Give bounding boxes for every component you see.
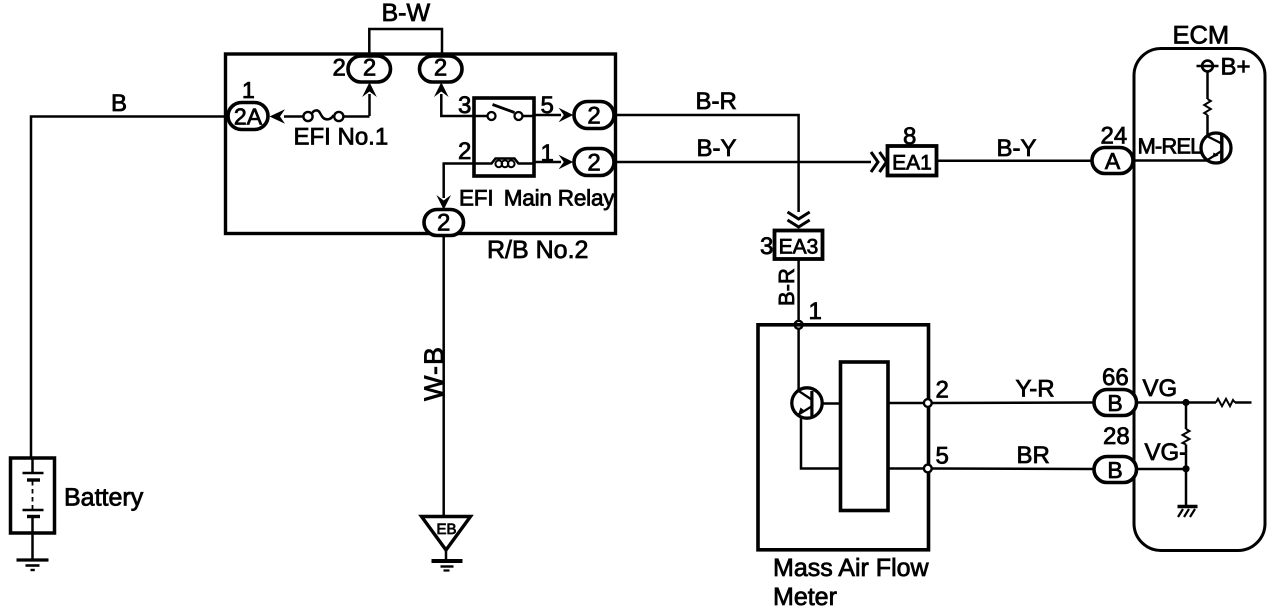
junction VG bbox=[1182, 399, 1189, 406]
wire VG- into ECM bbox=[1137, 468, 1187, 471]
wire relay pin 2 down bbox=[444, 164, 474, 199]
svg-text:2: 2 bbox=[333, 55, 346, 82]
svg-text:B-Y: B-Y bbox=[997, 135, 1037, 162]
ground under battery bbox=[17, 560, 49, 570]
wire W-B down to EB bbox=[442, 236, 445, 517]
resistor R horizontal VG bbox=[1216, 399, 1235, 406]
wire B-R from pin5 connector bbox=[614, 115, 799, 212]
wire EA3 down to MAF node bbox=[797, 259, 800, 321]
svg-text:2: 2 bbox=[936, 377, 949, 404]
chevron connector into EA3 bbox=[788, 212, 810, 227]
wire resistor to VG- node bbox=[1185, 445, 1188, 470]
MAF box Mass Air Flow Meter bbox=[758, 325, 929, 550]
node 1 on MAF top bbox=[795, 321, 803, 329]
wire B-W bridge bbox=[369, 29, 442, 55]
connector 2 right-bottom oval (pin 1) bbox=[574, 149, 614, 177]
wire resistor to transistor bbox=[1206, 115, 1209, 136]
svg-text:VG: VG bbox=[1143, 375, 1178, 402]
relay box EFI Main Relay bbox=[474, 98, 534, 176]
svg-text:BR: BR bbox=[1017, 442, 1050, 469]
transistor M-REL driver bbox=[1201, 133, 1231, 163]
wire battery to ground bbox=[31, 533, 34, 560]
svg-text:B-R: B-R bbox=[774, 268, 799, 306]
svg-text:B+: B+ bbox=[1221, 54, 1251, 81]
wire arrow to fuse bbox=[284, 115, 304, 118]
svg-text:EA3: EA3 bbox=[779, 236, 819, 259]
wire Y-R bbox=[932, 401, 1094, 404]
chevron connector into EA1 bbox=[871, 152, 887, 172]
svg-text:24: 24 bbox=[1101, 123, 1128, 150]
wire after resistor bbox=[1235, 401, 1252, 404]
battery BAT bbox=[11, 458, 55, 533]
wire relay pin 1 to connector bbox=[534, 161, 561, 164]
svg-text:2: 2 bbox=[458, 138, 471, 165]
svg-text:EFI Main Relay: EFI Main Relay bbox=[459, 186, 615, 211]
wire B+ down bbox=[1206, 72, 1209, 100]
wire B horizontal from battery riser to 2A bbox=[31, 117, 228, 459]
wire VG into ECM bbox=[1137, 401, 1217, 404]
B+ terminal symbol bbox=[1197, 61, 1219, 72]
svg-text:Meter: Meter bbox=[773, 583, 837, 611]
wire M-REL from A to transistor bbox=[1133, 159, 1207, 162]
node pin 2 bbox=[924, 399, 932, 407]
wire B-Y from EA1 to ECM A connector bbox=[937, 159, 1093, 162]
svg-text:2: 2 bbox=[437, 210, 450, 237]
wire node 1 down to transistor bbox=[797, 329, 800, 390]
svg-text:2: 2 bbox=[363, 55, 376, 82]
wire stem to top-right oval then to relay pin 3 bbox=[441, 94, 474, 116]
wire B-Y from pin1 connector bbox=[614, 161, 871, 164]
svg-text:EFI No.1: EFI No.1 bbox=[294, 124, 389, 151]
ground under EB bbox=[432, 561, 463, 571]
svg-text:2A: 2A bbox=[234, 104, 263, 130]
svg-text:2: 2 bbox=[587, 103, 600, 130]
ground triangle EB bbox=[422, 517, 471, 551]
relay coil bbox=[474, 159, 534, 168]
wire vertical between VG and VG- bbox=[1185, 403, 1188, 430]
connector 2 right-top oval (pin 5) bbox=[574, 102, 614, 130]
arrow up into top-left oval bbox=[362, 82, 377, 97]
wire stem to top-left oval bbox=[368, 94, 371, 116]
svg-text:B-Y: B-Y bbox=[697, 135, 737, 162]
svg-text:1: 1 bbox=[242, 77, 255, 103]
svg-text:EA1: EA1 bbox=[892, 152, 932, 175]
resistor R vertical under B+ bbox=[1204, 99, 1211, 115]
connector B (pin 28) bbox=[1094, 457, 1137, 484]
svg-text:ECM: ECM bbox=[1173, 22, 1230, 50]
svg-text:3: 3 bbox=[760, 233, 773, 260]
svg-text:B: B bbox=[111, 90, 127, 117]
svg-text:B-R: B-R bbox=[696, 88, 737, 115]
junction VG- bbox=[1182, 465, 1189, 472]
svg-text:Mass Air Flow: Mass Air Flow bbox=[773, 554, 930, 582]
junction box R/B No.2 bbox=[226, 54, 616, 234]
connector EA1 bbox=[888, 146, 937, 176]
svg-text:EB: EB bbox=[436, 521, 456, 538]
arrow right into pin5 connector bbox=[559, 108, 574, 123]
wire relay pin 5 to connector bbox=[534, 114, 561, 117]
wire transistor to inner sensor block bbox=[823, 402, 841, 405]
svg-text:8: 8 bbox=[903, 123, 916, 150]
wire EB stem bbox=[445, 550, 448, 561]
connector B (pin 66) bbox=[1094, 390, 1137, 417]
svg-text:5: 5 bbox=[936, 443, 949, 470]
connector 2A oval bbox=[228, 103, 268, 130]
svg-text:B-W: B-W bbox=[382, 0, 431, 27]
svg-text:2: 2 bbox=[587, 150, 600, 177]
connector 2 bottom oval bbox=[424, 210, 464, 237]
svg-text:3: 3 bbox=[458, 92, 471, 119]
svg-text:R/B No.2: R/B No.2 bbox=[487, 236, 588, 264]
wire pin 5 from block to node bbox=[888, 467, 924, 470]
arrow down into bottom connector bbox=[436, 195, 451, 210]
wire transistor emitter down and right bbox=[801, 418, 841, 469]
transistor MAF sensor bbox=[792, 388, 822, 418]
sensor block rectangle bbox=[841, 362, 889, 511]
arrow right into pin1 connector bbox=[559, 155, 574, 170]
chassis ground in ECM bbox=[1178, 507, 1198, 518]
svg-text:W-B: W-B bbox=[419, 346, 449, 401]
connector EA3 bbox=[775, 231, 823, 260]
svg-text:1: 1 bbox=[809, 298, 822, 325]
node pin 5 bbox=[924, 465, 932, 473]
svg-text:B: B bbox=[1107, 390, 1122, 416]
wire BR bbox=[932, 467, 1094, 470]
svg-text:B: B bbox=[1107, 457, 1122, 483]
fuse EFI No.1 bbox=[303, 110, 343, 121]
relay switch contacts bbox=[474, 105, 534, 121]
svg-text:66: 66 bbox=[1102, 364, 1129, 391]
svg-text:Y-R: Y-R bbox=[1016, 376, 1055, 403]
resistor R vertical between VG and VG- bbox=[1183, 429, 1190, 445]
connector 2 top-right oval bbox=[420, 55, 463, 83]
svg-text:M-REL: M-REL bbox=[1138, 134, 1203, 159]
svg-text:Battery: Battery bbox=[64, 484, 144, 512]
connector 2 top-left oval bbox=[348, 55, 391, 83]
ECM box bbox=[1134, 49, 1265, 551]
svg-text:2: 2 bbox=[434, 55, 447, 82]
svg-text:A: A bbox=[1105, 148, 1121, 174]
wire pin 2 from block to node bbox=[888, 402, 924, 405]
arrow left toward 2A bbox=[270, 109, 286, 123]
svg-text:28: 28 bbox=[1103, 423, 1130, 450]
arrow up into top-right oval bbox=[434, 82, 449, 97]
connector A (pin 24) bbox=[1092, 148, 1133, 175]
wire VG- node to chassis ground bbox=[1185, 469, 1188, 507]
wire fuse to riser bbox=[343, 115, 369, 118]
